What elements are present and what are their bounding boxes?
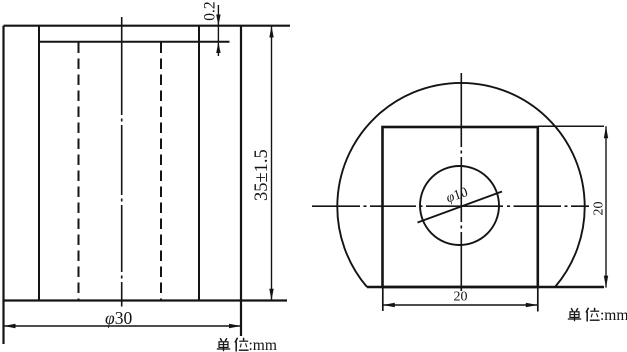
left view: inner top line (0.2 step) (39, 41, 230, 43)
right view: square outline (383, 127, 538, 287)
left view: hidden dashed line right (160, 43, 162, 301)
dimension 20 bottom: dimension line (383, 304, 538, 306)
unit note left: 单 glyph (217, 338, 230, 351)
dimension 20 bottom: right arrow (526, 303, 538, 307)
svg-text:20: 20 (454, 290, 468, 305)
dimension 35±1.5: top arrow (269, 26, 273, 38)
svg-text::mm: :mm (600, 307, 627, 324)
svg-text::mm: :mm (249, 337, 277, 352)
right view: flat bottom chord and its right extension (367, 286, 604, 289)
dimension 20 right: dimension line (605, 126, 607, 287)
svg-text:35±1.5: 35±1.5 (252, 149, 272, 201)
dimension 35±1.5: bottom arrow (269, 289, 273, 301)
left view: hidden dashed line left (78, 43, 80, 301)
right view: square right edge extension down (537, 287, 539, 312)
dimension φ30: right arrow (229, 324, 241, 328)
unit note right: 单 glyph (568, 308, 581, 321)
right view: horizontal center line (312, 205, 589, 207)
dimension 0.2: dimension line (217, 5, 219, 56)
left view: inner solid vertical left (38, 26, 40, 301)
svg-text:φ10: φ10 (444, 185, 469, 206)
right view: square left edge extension down (382, 287, 384, 311)
dimension φ30: left arrow (4, 324, 16, 328)
dimension 0.2: upper arrow (216, 15, 220, 26)
svg-text:0.2: 0.2 (202, 1, 219, 20)
right view: slanted diameter leader line (418, 192, 503, 223)
right view: big circle outline with flat bottom (337, 83, 584, 287)
unit note right: 位 glyph (586, 308, 600, 322)
dimension 35±1.5: dimension line (271, 26, 273, 301)
svg-text:20: 20 (592, 202, 607, 216)
right view: small circle φ10 (420, 166, 499, 245)
right view: vertical center line (460, 73, 462, 291)
dimension 0.2: lower arrow (216, 42, 220, 53)
svg-text:φ30: φ30 (105, 308, 132, 328)
dimension 20 bottom: left arrow (383, 303, 395, 307)
dimension 20 right: top arrow (604, 126, 608, 138)
dimension φ30: dimension line (4, 325, 242, 327)
right view: square top edge extension to right (538, 125, 604, 127)
dimension 20 right: bottom arrow (604, 276, 608, 288)
left view: inner solid vertical right (198, 26, 200, 301)
unit note left: 位 glyph (235, 338, 249, 352)
left view: outer rectangle of cylinder (4, 26, 291, 344)
left view: vertical center line (121, 17, 123, 307)
